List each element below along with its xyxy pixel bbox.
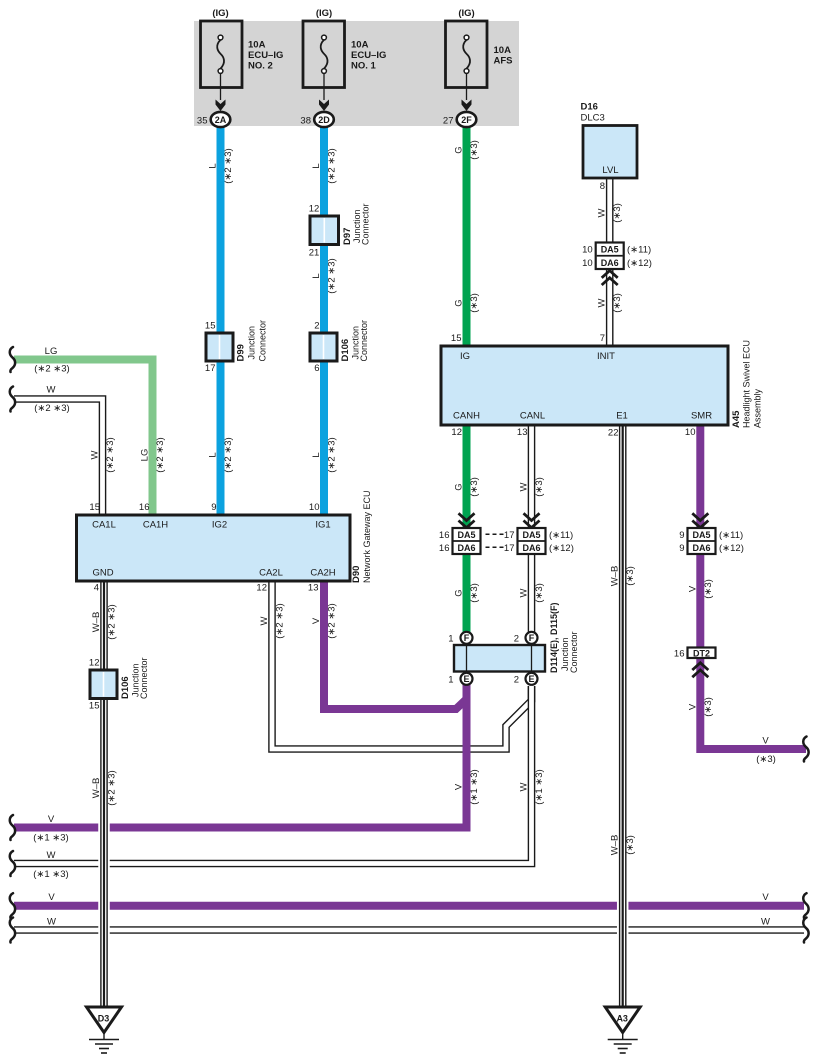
dashed link between DA connectors bbox=[486, 534, 504, 547]
svg-text:D114(E), D115(F): D114(E), D115(F) bbox=[549, 602, 559, 673]
junction connector D106 upper bbox=[310, 320, 369, 374]
svg-text:35: 35 bbox=[197, 116, 208, 127]
svg-text:V: V bbox=[762, 892, 769, 903]
wire G green CANH from A45 to junction F1 bbox=[463, 425, 471, 633]
svg-text:8: 8 bbox=[600, 181, 605, 192]
svg-text:10: 10 bbox=[685, 427, 696, 438]
svg-text:(∗12): (∗12) bbox=[627, 258, 652, 269]
svg-text:W–B: W–B bbox=[610, 566, 621, 587]
down chevron arrow CANL bbox=[524, 513, 540, 527]
connector 2A bbox=[197, 112, 230, 127]
svg-text:Network Gateway ECU: Network Gateway ECU bbox=[362, 490, 372, 583]
svg-text:(∗3): (∗3) bbox=[534, 477, 545, 497]
fuse 10A AFS bbox=[446, 8, 513, 111]
wire G green from fuse 2F to A45 IG bbox=[463, 126, 471, 346]
svg-text:CANH: CANH bbox=[453, 411, 480, 422]
connector DA5/DA6 at DLC3 column bbox=[582, 243, 652, 270]
svg-text:A45: A45 bbox=[731, 410, 742, 428]
svg-text:IG: IG bbox=[460, 351, 470, 362]
svg-text:(∗3): (∗3) bbox=[625, 566, 636, 586]
wire CA2L white path from D90 to junction E2 bbox=[272, 580, 532, 749]
svg-text:10: 10 bbox=[582, 245, 593, 256]
svg-text:(∗11): (∗11) bbox=[627, 245, 651, 256]
label V (*3) SMR lower bbox=[687, 697, 714, 717]
svg-text:(∗2 ∗3): (∗2 ∗3) bbox=[105, 437, 116, 472]
svg-text:E: E bbox=[528, 674, 534, 684]
svg-text:CA2H: CA2H bbox=[310, 568, 335, 579]
svg-text:Assembly: Assembly bbox=[753, 388, 763, 428]
wire W CANL from A45 to junction F2 bbox=[528, 424, 536, 633]
svg-text:LG: LG bbox=[45, 346, 58, 357]
junction connector D114(E) D115(F) bbox=[454, 602, 579, 673]
svg-text:W–B: W–B bbox=[610, 835, 621, 856]
wire LG horizontal from left edge to CA1H bbox=[14, 360, 153, 516]
wire V violet from A45 SMR through DT2 to right edge bbox=[700, 425, 806, 749]
junction connector D106 lower bbox=[89, 657, 149, 711]
svg-text:D106: D106 bbox=[340, 339, 351, 362]
svg-text:(∗3): (∗3) bbox=[703, 579, 714, 599]
label W (*2 *3) CA2L bbox=[259, 603, 286, 638]
svg-text:G: G bbox=[454, 483, 465, 490]
svg-text:W: W bbox=[597, 298, 608, 307]
wire break squiggle V(*1*3) left bbox=[10, 815, 15, 840]
svg-text:(∗2 ∗3): (∗2 ∗3) bbox=[327, 148, 338, 183]
svg-text:2D: 2D bbox=[318, 115, 330, 125]
wire break squiggle W(*1*3) left bbox=[10, 851, 15, 876]
wire W horizontal from left edge to CA1L bbox=[14, 399, 103, 516]
svg-text:(IG): (IG) bbox=[316, 8, 332, 19]
svg-text:V: V bbox=[311, 617, 322, 624]
svg-text:G: G bbox=[454, 589, 465, 596]
svg-text:GND: GND bbox=[92, 568, 113, 579]
svg-text:(∗2 ∗3): (∗2 ∗3) bbox=[34, 403, 69, 414]
label V (*3) SMR exit bbox=[756, 736, 776, 766]
label L (*2 *3) wire1 top bbox=[208, 148, 235, 183]
power source gray band bbox=[194, 21, 519, 126]
wire break squiggle W left bbox=[10, 918, 15, 943]
label W (*3) CANL lower bbox=[519, 583, 546, 603]
wire W (*1 *3) horizontal + vertical to junction E2 bbox=[14, 686, 532, 864]
fuse 10A ECU-IG NO.2 bbox=[201, 8, 284, 111]
svg-text:F: F bbox=[464, 633, 470, 643]
svg-text:12: 12 bbox=[89, 658, 100, 669]
svg-text:G: G bbox=[454, 146, 465, 153]
connector 2F bbox=[443, 112, 476, 127]
svg-text:21: 21 bbox=[309, 248, 320, 259]
svg-text:V: V bbox=[48, 814, 55, 825]
svg-text:CA2L: CA2L bbox=[259, 568, 283, 579]
svg-text:1: 1 bbox=[448, 675, 453, 686]
svg-text:DA6: DA6 bbox=[692, 543, 710, 553]
label W (*1 *3) E2-col bbox=[519, 769, 546, 804]
svg-text:16: 16 bbox=[439, 530, 450, 541]
svg-text:W–B: W–B bbox=[91, 612, 102, 633]
svg-text:(∗2 ∗3): (∗2 ∗3) bbox=[327, 603, 338, 638]
svg-text:(∗3): (∗3) bbox=[756, 754, 776, 765]
svg-text:(∗3): (∗3) bbox=[469, 583, 480, 603]
svg-text:L: L bbox=[311, 452, 322, 457]
svg-text:V: V bbox=[48, 892, 55, 903]
svg-text:2A: 2A bbox=[215, 115, 227, 125]
svg-text:INIT: INIT bbox=[597, 351, 615, 362]
svg-text:W: W bbox=[90, 450, 101, 459]
wire break squiggle W left bbox=[10, 387, 15, 412]
label G (*3) CANH upper bbox=[454, 477, 481, 497]
label L (*2 *3) wire2 lower bbox=[311, 437, 338, 472]
svg-text:(∗2 ∗3): (∗2 ∗3) bbox=[275, 603, 286, 638]
svg-text:Junction: Junction bbox=[247, 326, 257, 360]
down chevron arrow CANH bbox=[459, 513, 475, 527]
svg-text:NO. 1: NO. 1 bbox=[351, 61, 377, 72]
node E pin1 bbox=[448, 673, 472, 686]
svg-text:W: W bbox=[47, 850, 56, 861]
svg-text:L: L bbox=[208, 452, 219, 457]
label G (*3) wire3 lower bbox=[454, 293, 481, 313]
svg-text:6: 6 bbox=[314, 363, 319, 374]
svg-text:D106: D106 bbox=[120, 676, 131, 699]
svg-text:(∗3): (∗3) bbox=[625, 835, 636, 855]
svg-text:DA6: DA6 bbox=[457, 543, 475, 553]
svg-text:Connector: Connector bbox=[361, 203, 371, 245]
svg-text:W: W bbox=[519, 588, 530, 597]
svg-text:A3: A3 bbox=[616, 1014, 628, 1024]
svg-text:ECU–IG: ECU–IG bbox=[351, 50, 386, 61]
svg-text:DA5: DA5 bbox=[601, 245, 619, 255]
svg-text:(∗3): (∗3) bbox=[469, 477, 480, 497]
svg-text:DLC3: DLC3 bbox=[581, 113, 605, 124]
wire W from DLC3 LVL to A45 INIT bbox=[606, 177, 614, 346]
svg-text:W: W bbox=[519, 782, 530, 791]
svg-text:(∗3): (∗3) bbox=[703, 697, 714, 717]
node E pin2 bbox=[514, 673, 538, 686]
wire W-B from D90 GND to ground D3 bbox=[98, 581, 110, 1008]
svg-text:7: 7 bbox=[600, 333, 605, 344]
svg-text:L: L bbox=[311, 273, 322, 278]
svg-text:W: W bbox=[597, 208, 608, 217]
label W-B (*2 *3) GND upper bbox=[91, 604, 118, 639]
svg-text:2F: 2F bbox=[461, 115, 472, 125]
svg-text:W: W bbox=[259, 616, 270, 625]
svg-text:DA6: DA6 bbox=[522, 543, 540, 553]
label LG horizontal bbox=[34, 346, 69, 375]
label W (*3) DLC3 lower bbox=[597, 293, 624, 313]
svg-text:15: 15 bbox=[89, 701, 100, 712]
svg-text:17: 17 bbox=[504, 543, 515, 554]
label V (*3) SMR upper bbox=[687, 579, 714, 599]
svg-text:13: 13 bbox=[308, 583, 319, 594]
svg-text:16: 16 bbox=[139, 502, 150, 513]
junction connector D97 bbox=[309, 203, 371, 258]
svg-text:IG1: IG1 bbox=[315, 520, 330, 531]
svg-text:V: V bbox=[687, 703, 698, 710]
label W (*2 *3) CA1L bbox=[90, 437, 117, 472]
connector 2D bbox=[300, 112, 333, 127]
svg-text:D3: D3 bbox=[98, 1014, 110, 1024]
svg-text:16: 16 bbox=[674, 648, 685, 659]
DLC3 D16 box bbox=[581, 102, 638, 193]
connector DA5/DA6 at CANH column bbox=[439, 528, 481, 554]
svg-text:LVL: LVL bbox=[602, 165, 618, 176]
svg-text:CA1L: CA1L bbox=[92, 520, 116, 531]
svg-text:2: 2 bbox=[514, 675, 519, 686]
svg-text:10A: 10A bbox=[351, 40, 369, 51]
svg-text:Connector: Connector bbox=[359, 320, 369, 362]
svg-text:1: 1 bbox=[448, 634, 453, 645]
down chevron arrow SMR bbox=[692, 513, 708, 527]
svg-text:2: 2 bbox=[514, 634, 519, 645]
svg-text:16: 16 bbox=[439, 543, 450, 554]
svg-text:NO. 2: NO. 2 bbox=[248, 61, 273, 72]
up chevron arrow below DT2 bbox=[692, 663, 708, 677]
wire break squiggle LG left bbox=[10, 347, 15, 372]
svg-text:W: W bbox=[47, 917, 56, 928]
svg-text:G: G bbox=[454, 299, 465, 306]
node F pin1 bbox=[448, 632, 472, 645]
svg-text:V: V bbox=[762, 736, 769, 747]
svg-text:15: 15 bbox=[89, 502, 100, 513]
label LG (*2 *3) CA1H bbox=[140, 437, 167, 472]
svg-text:10A: 10A bbox=[248, 40, 266, 51]
label V (*1 *3) horizontal bbox=[33, 814, 68, 844]
wire CA2H violet path from D90 to junction E1 column bbox=[324, 581, 467, 709]
wire L blue from fuse 2D to D90 IG1 bbox=[320, 126, 328, 515]
svg-text:(∗2 ∗3): (∗2 ∗3) bbox=[107, 770, 118, 805]
svg-text:27: 27 bbox=[443, 116, 454, 127]
label V (*2 *3) CA2H bbox=[311, 603, 338, 638]
svg-text:CANL: CANL bbox=[520, 411, 545, 422]
svg-text:10: 10 bbox=[582, 258, 593, 269]
svg-text:D16: D16 bbox=[581, 102, 598, 113]
connector DT2 bbox=[674, 648, 716, 660]
svg-text:Connector: Connector bbox=[139, 657, 149, 699]
label W-B (*2 *3) GND lower bbox=[91, 770, 118, 805]
svg-text:12: 12 bbox=[309, 204, 320, 215]
svg-text:17: 17 bbox=[205, 363, 216, 374]
connector DA5/DA6 at SMR column bbox=[679, 528, 744, 554]
svg-text:DA6: DA6 bbox=[601, 258, 619, 268]
svg-text:22: 22 bbox=[608, 428, 619, 439]
svg-text:12: 12 bbox=[451, 427, 462, 438]
label V (*1 *3) E-col bbox=[454, 769, 481, 804]
svg-text:9: 9 bbox=[679, 530, 684, 541]
svg-text:10: 10 bbox=[309, 502, 320, 513]
wire W full-width horizontal bbox=[14, 926, 804, 933]
svg-text:(∗2 ∗3): (∗2 ∗3) bbox=[155, 437, 166, 472]
wire V full-width horizontal bbox=[14, 902, 804, 910]
svg-text:(∗1 ∗3): (∗1 ∗3) bbox=[469, 769, 480, 804]
svg-text:(∗2 ∗3): (∗2 ∗3) bbox=[223, 148, 234, 183]
svg-text:2: 2 bbox=[314, 321, 319, 332]
svg-text:W–B: W–B bbox=[91, 778, 102, 799]
svg-text:(∗11): (∗11) bbox=[719, 530, 743, 541]
svg-text:L: L bbox=[208, 163, 219, 168]
svg-text:(∗12): (∗12) bbox=[719, 543, 744, 554]
svg-text:DA5: DA5 bbox=[457, 530, 475, 540]
svg-text:(∗2 ∗3): (∗2 ∗3) bbox=[107, 604, 118, 639]
label W (*3) CANL upper bbox=[519, 477, 546, 497]
ECU D90 Network Gateway ECU box bbox=[77, 490, 373, 593]
svg-text:Connector: Connector bbox=[569, 631, 579, 673]
fuse 10A ECU-IG NO.1 bbox=[303, 8, 386, 111]
svg-text:15: 15 bbox=[451, 333, 462, 344]
svg-text:E: E bbox=[463, 674, 469, 684]
svg-text:(∗3): (∗3) bbox=[534, 583, 545, 603]
label G (*3) CANH lower bbox=[454, 583, 481, 603]
svg-text:12: 12 bbox=[256, 583, 267, 594]
svg-text:V: V bbox=[687, 585, 698, 592]
wire break squiggle V left bbox=[10, 893, 15, 918]
svg-text:4: 4 bbox=[94, 583, 99, 594]
svg-text:10A: 10A bbox=[494, 45, 512, 56]
label V full-width left/right bbox=[48, 892, 769, 903]
label L (*2 *3) wire2 mid bbox=[311, 258, 338, 293]
wire V (*1 *3) horizontal + vertical to junction E1 bbox=[14, 685, 467, 828]
svg-text:V: V bbox=[454, 783, 465, 790]
svg-text:9: 9 bbox=[679, 543, 684, 554]
wire break squiggle V(*3) right bbox=[803, 737, 808, 762]
label W horizontal bbox=[34, 385, 69, 415]
svg-text:LG: LG bbox=[140, 449, 151, 462]
svg-text:E1: E1 bbox=[616, 411, 628, 422]
svg-text:DA5: DA5 bbox=[522, 530, 540, 540]
svg-text:(∗12): (∗12) bbox=[549, 543, 574, 554]
svg-text:(∗2 ∗3): (∗2 ∗3) bbox=[327, 258, 338, 293]
junction connector D99 bbox=[205, 320, 268, 374]
ground D3 bbox=[87, 1007, 122, 1053]
ground A3 bbox=[605, 1007, 640, 1053]
svg-text:SMR: SMR bbox=[691, 411, 712, 422]
wire W-B from A45 E1 to ground A3 bbox=[617, 425, 629, 1008]
svg-text:W: W bbox=[519, 482, 530, 491]
label W (*3) DLC3 upper bbox=[597, 203, 624, 223]
svg-text:D99: D99 bbox=[236, 344, 247, 361]
svg-text:(∗3): (∗3) bbox=[612, 293, 623, 313]
svg-text:(∗3): (∗3) bbox=[469, 293, 480, 313]
wire break squiggle V right bbox=[803, 893, 808, 918]
svg-text:F: F bbox=[529, 633, 535, 643]
label L (*2 *3) wire2 top bbox=[311, 148, 338, 183]
node F pin2 bbox=[514, 632, 538, 645]
svg-text:(∗2 ∗3): (∗2 ∗3) bbox=[327, 437, 338, 472]
wire L blue from fuse 2A to D90 IG2 bbox=[217, 126, 225, 515]
svg-text:(∗11): (∗11) bbox=[549, 530, 573, 541]
svg-text:(∗2 ∗3): (∗2 ∗3) bbox=[223, 437, 234, 472]
label W (*1 *3) horizontal bbox=[33, 850, 68, 880]
svg-text:(∗1 ∗3): (∗1 ∗3) bbox=[33, 833, 68, 844]
svg-text:Connector: Connector bbox=[258, 320, 268, 362]
svg-text:(IG): (IG) bbox=[212, 8, 228, 19]
connector DA5/DA6 at CANL column bbox=[504, 528, 574, 554]
svg-text:17: 17 bbox=[504, 530, 515, 541]
svg-text:(∗2 ∗3): (∗2 ∗3) bbox=[34, 364, 69, 375]
svg-text:IG2: IG2 bbox=[212, 520, 227, 531]
svg-text:L: L bbox=[311, 163, 322, 168]
svg-text:(∗1 ∗3): (∗1 ∗3) bbox=[534, 769, 545, 804]
svg-text:(∗3): (∗3) bbox=[469, 140, 480, 160]
svg-text:Headlight Swivel ECU: Headlight Swivel ECU bbox=[742, 340, 752, 428]
svg-text:(IG): (IG) bbox=[458, 8, 474, 19]
svg-text:38: 38 bbox=[300, 116, 311, 127]
svg-text:ECU–IG: ECU–IG bbox=[248, 50, 283, 61]
label W-B (*3) E1 upper bbox=[610, 566, 637, 587]
ECU A45 Headlight Swivel ECU Assembly box bbox=[441, 333, 763, 439]
svg-text:W: W bbox=[47, 385, 56, 396]
label L (*2 *3) wire1 lower bbox=[208, 437, 235, 472]
svg-text:W: W bbox=[761, 917, 770, 928]
wire break squiggle W right bbox=[803, 918, 808, 943]
label W full-width left/right bbox=[47, 917, 770, 928]
svg-text:CA1H: CA1H bbox=[143, 520, 168, 531]
label G (*3) wire3 top bbox=[454, 140, 481, 160]
svg-text:(∗3): (∗3) bbox=[612, 203, 623, 223]
svg-text:15: 15 bbox=[205, 321, 216, 332]
svg-text:AFS: AFS bbox=[494, 56, 513, 67]
up chevron arrow below DA6 DLC3 bbox=[602, 271, 618, 285]
svg-text:(∗1 ∗3): (∗1 ∗3) bbox=[33, 869, 68, 880]
svg-text:9: 9 bbox=[211, 502, 216, 513]
svg-text:DT2: DT2 bbox=[693, 648, 710, 658]
svg-text:DA5: DA5 bbox=[692, 530, 710, 540]
label W-B (*3) E1 lower bbox=[610, 835, 637, 856]
svg-text:13: 13 bbox=[517, 427, 528, 438]
svg-text:D90: D90 bbox=[351, 566, 362, 583]
